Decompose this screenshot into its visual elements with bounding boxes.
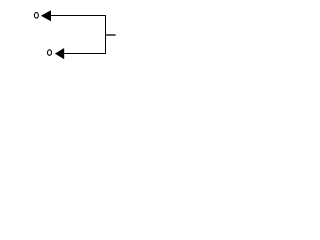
wire (emitter 1, top horizontal): [50, 15, 106, 16]
base bar (vertical wire): [105, 15, 106, 54]
terminal circle (emitter 1, top): [34, 13, 38, 19]
terminal circle (emitter 2, bottom): [48, 50, 52, 56]
arrowhead (emitter 1, top): [41, 10, 51, 21]
base lead stub (right): [106, 34, 116, 36]
arrowhead (emitter 2, bottom): [55, 48, 64, 59]
wire (emitter 2, bottom horizontal): [62, 53, 106, 54]
